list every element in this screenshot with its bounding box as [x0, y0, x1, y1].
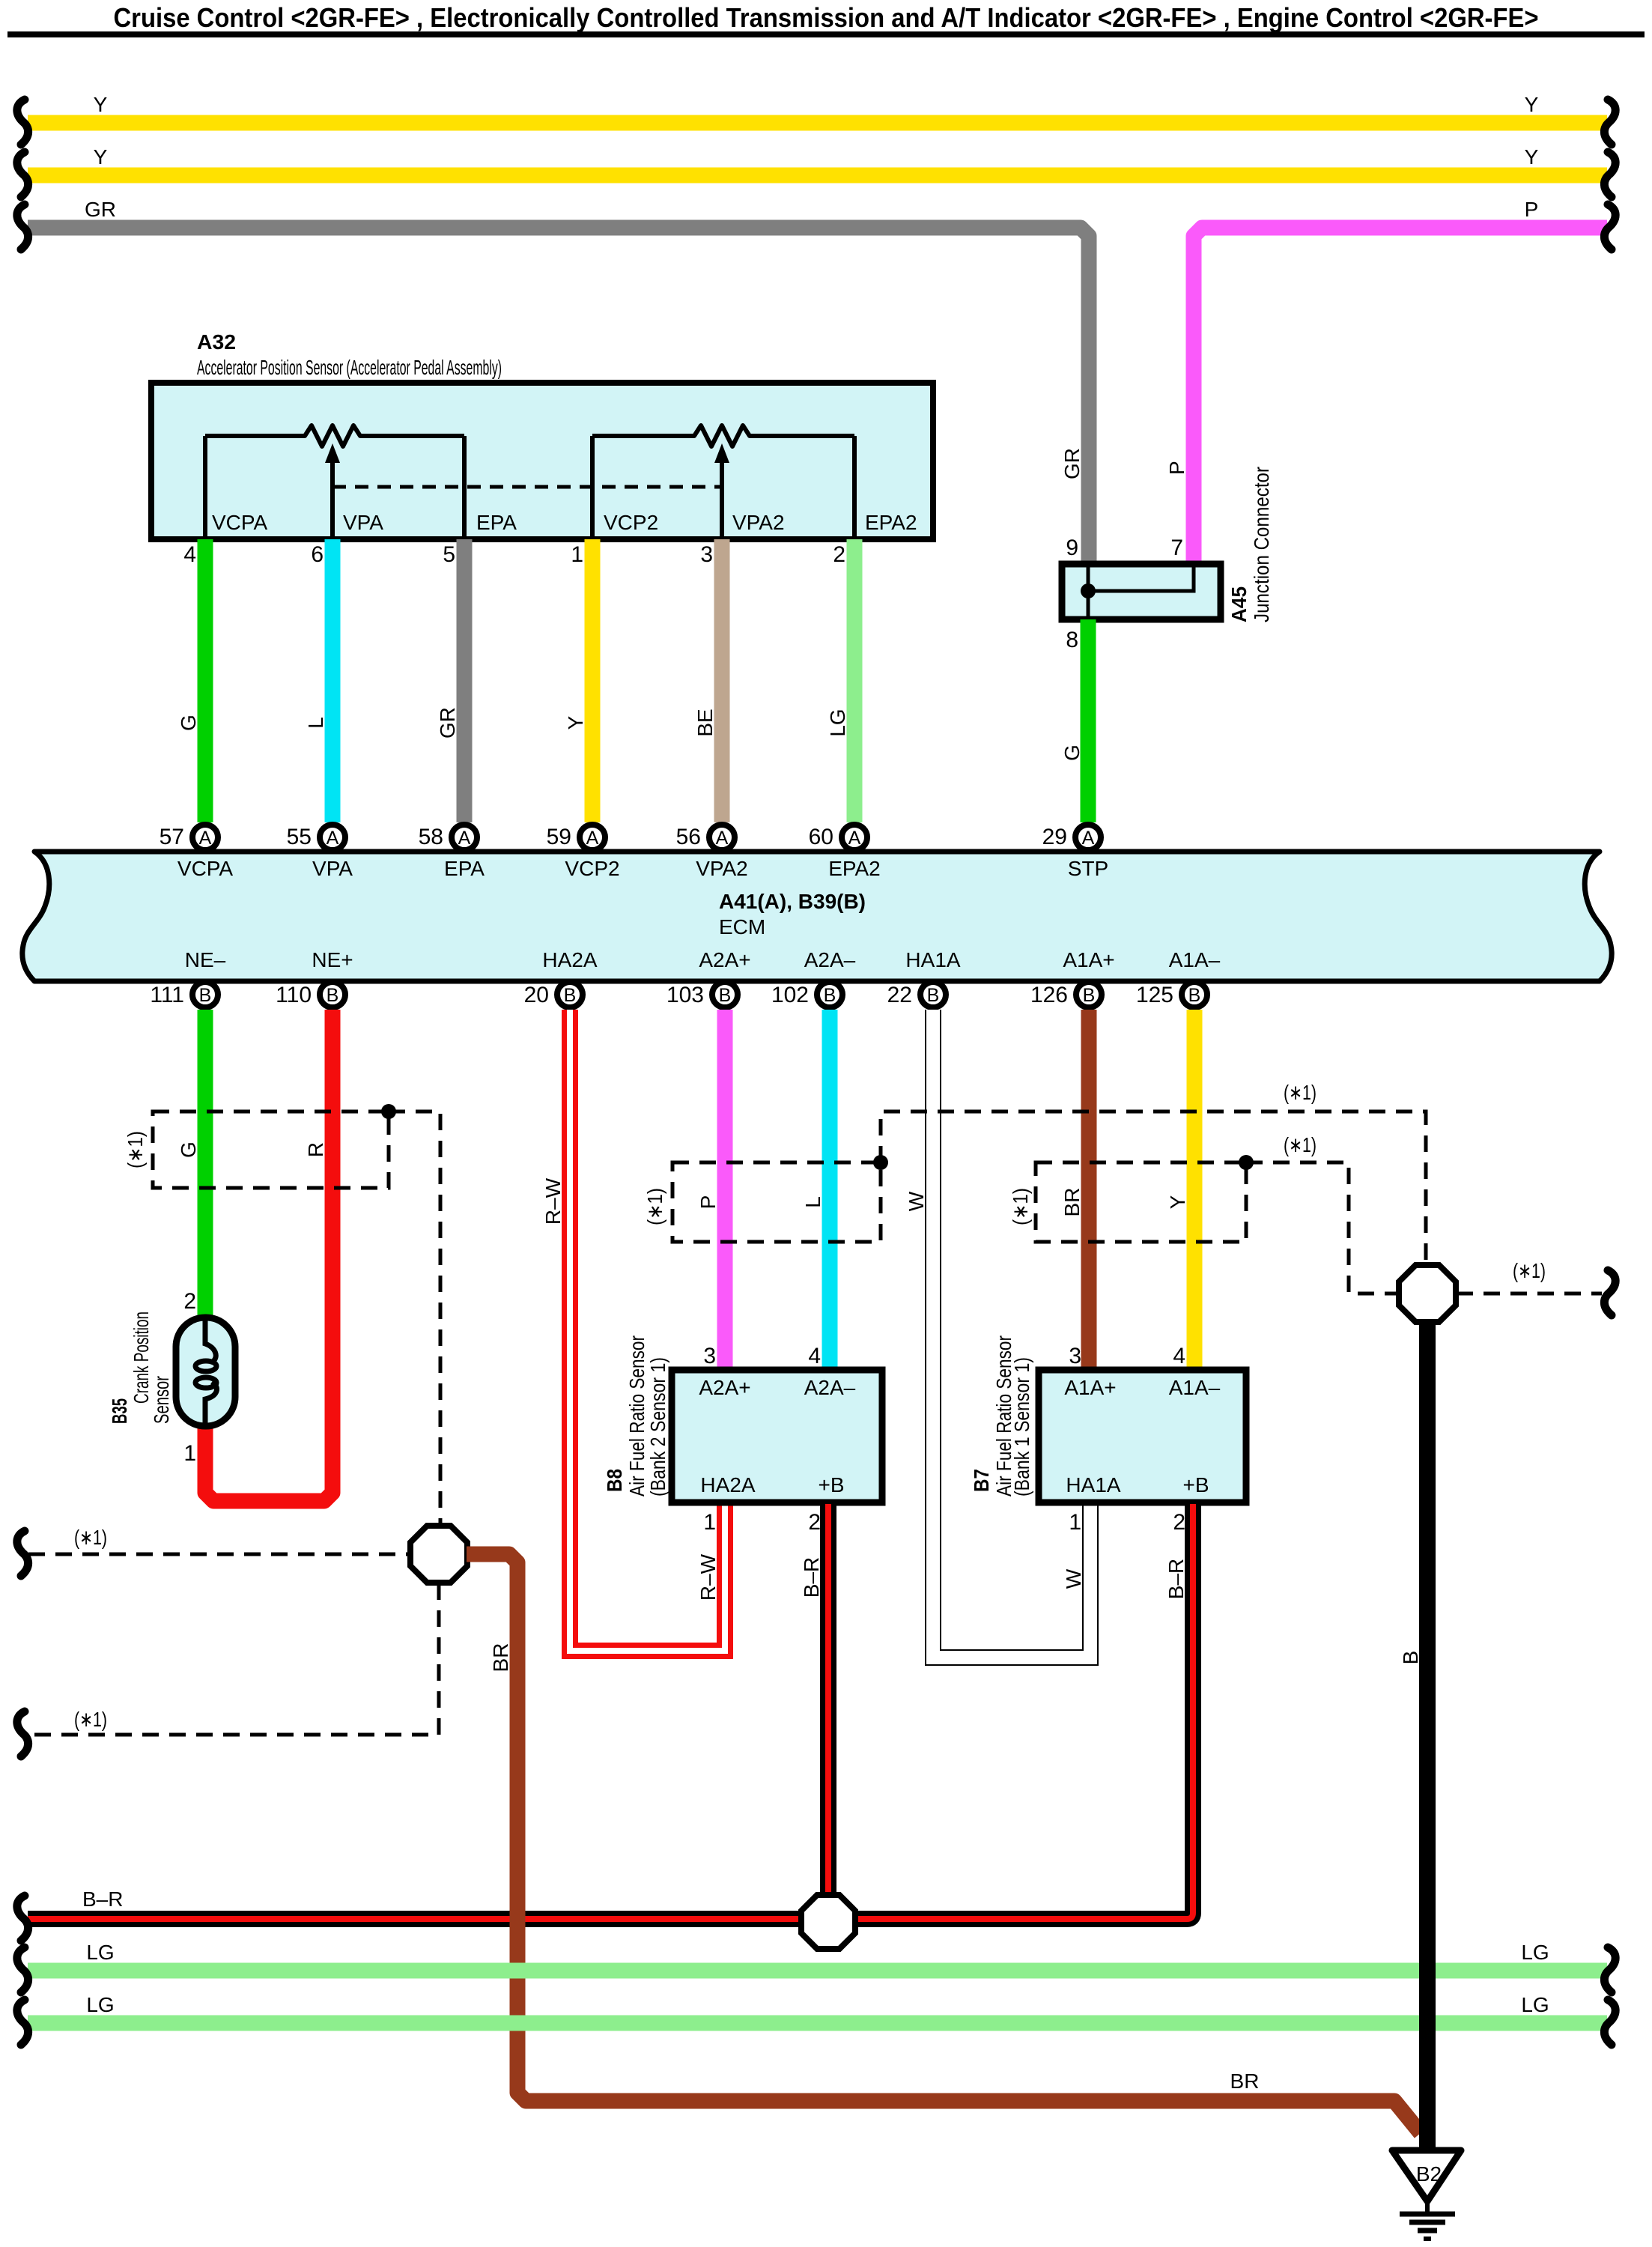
svg-text:NE+: NE+ — [312, 948, 353, 971]
svg-text:A32: A32 — [197, 330, 236, 354]
svg-text:B: B — [927, 985, 940, 1006]
ECM pin 59A (VCP2) — [580, 825, 605, 850]
svg-text:Accelerator Position Sensor (A: Accelerator Position Sensor (Accelerator… — [197, 356, 502, 379]
svg-text:(∗1): (∗1) — [1009, 1188, 1032, 1225]
svg-text:G: G — [1060, 745, 1084, 761]
sensor B8 box — [672, 1370, 882, 1502]
svg-text:4: 4 — [808, 1344, 821, 1368]
svg-text:A2A–: A2A– — [804, 1376, 856, 1399]
svg-text:HA2A: HA2A — [542, 948, 597, 971]
svg-text:B: B — [1188, 985, 1201, 1006]
svg-text:B: B — [824, 985, 836, 1006]
dashed line octagon 2 -> right continuation — [1457, 1292, 1602, 1296]
svg-text:3: 3 — [703, 1344, 716, 1368]
svg-text:4: 4 — [183, 542, 196, 567]
svg-text:B8: B8 — [603, 1469, 626, 1492]
svg-text:NE–: NE– — [185, 948, 226, 971]
ECM pin 55A (VPA) — [320, 825, 345, 850]
svg-text:G: G — [177, 715, 200, 731]
svg-text:29: 29 — [1042, 825, 1067, 849]
svg-text:2: 2 — [1173, 1510, 1185, 1535]
svg-text:111: 111 — [150, 983, 184, 1007]
wire G (ECM 111 -> B35 pin2) — [198, 1010, 213, 1318]
svg-text:Y: Y — [94, 145, 108, 169]
svg-text:A2A–: A2A– — [804, 948, 856, 971]
svg-text:EPA2: EPA2 — [828, 857, 881, 880]
svg-text:BR: BR — [489, 1643, 512, 1673]
wire B (octagon 2 -> ground B2) — [1419, 1320, 1436, 2149]
continuation brace Y1 right — [1604, 100, 1615, 145]
svg-text:G: G — [177, 1141, 200, 1158]
svg-text:Cruise Control <2GR-FE> , Elec: Cruise Control <2GR-FE> , Electronically… — [114, 2, 1539, 33]
wire P (ECM 103 -> B8 pin3) — [717, 1010, 733, 1370]
svg-text:P: P — [1165, 461, 1188, 475]
svg-text:VPA2: VPA2 — [696, 857, 748, 880]
continuation brace LG2 right — [1604, 2000, 1615, 2045]
svg-text:B: B — [1083, 985, 1096, 1006]
wire B-R (B8 +B -> octagon 3) — [820, 1504, 836, 1893]
svg-text:B–R: B–R — [82, 1887, 123, 1911]
dashed shield drain to octagon 1 — [389, 1112, 440, 1525]
continuation brace left (*1) upper — [17, 1531, 28, 1576]
svg-text:A1A+: A1A+ — [1064, 1376, 1116, 1399]
svg-text:EPA2: EPA2 — [865, 511, 917, 534]
svg-text:B7: B7 — [970, 1469, 993, 1492]
svg-text:(∗1): (∗1) — [1513, 1259, 1546, 1282]
svg-text:(Bank 2 Sensor 1): (Bank 2 Sensor 1) — [646, 1357, 669, 1497]
svg-text:110: 110 — [276, 983, 312, 1007]
svg-text:R–W: R–W — [541, 1177, 565, 1225]
svg-text:Air Fuel Ratio Sensor: Air Fuel Ratio Sensor — [625, 1335, 649, 1497]
continuation brace Y2 right — [1604, 152, 1615, 197]
wire LG (lower 2) — [28, 2016, 1607, 2031]
svg-text:A2A+: A2A+ — [699, 948, 750, 971]
svg-text:(∗1): (∗1) — [1284, 1081, 1317, 1104]
svg-text:B: B — [199, 985, 212, 1006]
svg-text:1: 1 — [571, 542, 583, 567]
svg-text:Y: Y — [1166, 1195, 1189, 1209]
svg-text:GR: GR — [436, 707, 459, 739]
svg-text:B: B — [1399, 1651, 1422, 1665]
svg-text:9: 9 — [1066, 536, 1078, 560]
shield octagon junction (left) — [410, 1526, 467, 1583]
svg-text:VPA2: VPA2 — [732, 511, 785, 534]
svg-text:GR: GR — [1060, 448, 1084, 479]
svg-text:7: 7 — [1170, 536, 1183, 560]
wire Y (A32 pin1 -> ECM 59) — [585, 539, 601, 822]
wire BR (ECM 126 -> B7 pin3) — [1081, 1010, 1097, 1371]
wire R-W (ECM 20 -> B8 pin1) — [570, 1010, 725, 1651]
wire GR (A32 pin5 -> ECM 58) — [457, 539, 473, 822]
wire BR (octagon 1 -> ground join) — [467, 1554, 1421, 2133]
wire LG (A32 pin2 -> ECM 60) — [847, 539, 863, 822]
wire L (ECM 102 -> B8 pin4) — [822, 1010, 838, 1370]
sensor B35 body — [176, 1317, 235, 1426]
continuation brace LG1 left — [17, 1947, 28, 1992]
continuation brace GR left — [17, 204, 28, 249]
svg-text:2: 2 — [808, 1510, 821, 1535]
svg-text:+B: +B — [818, 1473, 844, 1497]
svg-text:R: R — [304, 1142, 327, 1157]
potentiometer 1 (VCPA/VPA/EPA) — [205, 425, 464, 446]
svg-text:1: 1 — [1069, 1510, 1081, 1535]
svg-text:60: 60 — [809, 825, 833, 849]
svg-text:LG: LG — [826, 709, 849, 736]
svg-text:B: B — [719, 985, 732, 1006]
junction dot (BR/Y shield) — [1239, 1155, 1254, 1170]
svg-text:A1A+: A1A+ — [1063, 948, 1114, 971]
svg-text:2: 2 — [183, 1289, 196, 1314]
wire BE (A32 pin3 -> ECM 56) — [714, 539, 730, 822]
wire G (A45 pin 8 -> ECM 29) — [1081, 619, 1096, 822]
svg-text:A1A–: A1A– — [1169, 1376, 1221, 1399]
svg-text:BR: BR — [1230, 2069, 1260, 2093]
potentiometer 2 (VCP2/VPA2/EPA2) — [592, 425, 854, 446]
svg-text:B2: B2 — [1416, 2162, 1442, 2186]
svg-text:A: A — [716, 828, 729, 849]
svg-text:(∗1): (∗1) — [1284, 1133, 1317, 1156]
continuation brace LG2 left — [17, 2000, 28, 2045]
svg-text:L: L — [304, 717, 327, 729]
svg-text:A: A — [458, 828, 471, 849]
svg-text:R–W: R–W — [696, 1553, 720, 1601]
shield dashed box (P/L) — [672, 1162, 881, 1242]
svg-text:+B: +B — [1182, 1473, 1209, 1497]
shield dashed box (G/R) — [153, 1112, 389, 1188]
wire Y (ECM 125 -> B7 pin4) — [1187, 1010, 1203, 1371]
junction dot (P/L shield) — [873, 1155, 888, 1170]
ECM pin 57A (VCPA) — [192, 825, 218, 850]
svg-text:(∗1): (∗1) — [124, 1131, 147, 1168]
svg-text:BR: BR — [1060, 1188, 1084, 1217]
svg-text:STP: STP — [1068, 857, 1108, 880]
wire G (A32 pin4 -> ECM 57) — [198, 539, 213, 822]
junction dot (G/R shield) — [381, 1104, 396, 1119]
svg-text:HA2A: HA2A — [700, 1473, 755, 1497]
svg-text:L: L — [801, 1196, 825, 1208]
continuation brace right (*1) — [1604, 1270, 1615, 1315]
svg-text:126: 126 — [1030, 983, 1068, 1007]
shield octagon junction (right) — [1399, 1265, 1456, 1322]
svg-text:Y: Y — [94, 93, 108, 116]
svg-text:57: 57 — [160, 825, 184, 849]
svg-text:A1A–: A1A– — [1169, 948, 1221, 971]
wire Y (top 2) — [28, 168, 1607, 184]
svg-text:(∗1): (∗1) — [74, 1708, 107, 1731]
junction connector A45 box — [1062, 564, 1221, 619]
svg-text:(∗1): (∗1) — [643, 1188, 666, 1225]
svg-text:VCPA: VCPA — [177, 857, 233, 880]
svg-text:55: 55 — [287, 825, 312, 849]
wire R (ECM 110 -> B35 pin1) — [205, 1010, 332, 1501]
wire P (top, to A45 pin 7) — [1194, 228, 1607, 564]
svg-text:HA1A: HA1A — [1066, 1473, 1120, 1497]
svg-text:6: 6 — [311, 542, 324, 567]
svg-text:B: B — [327, 985, 339, 1006]
connector A32 box — [151, 383, 933, 539]
continuation brace left (*1) lower — [17, 1711, 28, 1756]
svg-text:4: 4 — [1173, 1344, 1185, 1368]
svg-text:LG: LG — [86, 1993, 114, 2016]
svg-text:VCP2: VCP2 — [565, 857, 619, 880]
svg-text:B: B — [564, 985, 577, 1006]
svg-text:3: 3 — [700, 542, 713, 567]
svg-text:P: P — [696, 1195, 720, 1210]
svg-text:Sensor: Sensor — [150, 1376, 173, 1424]
svg-text:102: 102 — [771, 983, 809, 1007]
svg-text:ECM: ECM — [719, 915, 765, 938]
svg-text:A: A — [327, 828, 339, 849]
svg-text:LG: LG — [1521, 1941, 1549, 1964]
dashed line BR/Y shield -> octagon 2 — [1246, 1162, 1397, 1294]
svg-text:A41(A), B39(B): A41(A), B39(B) — [719, 890, 866, 913]
svg-text:Junction Connector: Junction Connector — [1250, 467, 1273, 622]
svg-text:A: A — [199, 828, 212, 849]
svg-text:1: 1 — [703, 1510, 716, 1535]
ground B2 — [1392, 2150, 1461, 2201]
svg-text:3: 3 — [1069, 1344, 1081, 1368]
svg-text:A: A — [1082, 828, 1095, 849]
svg-text:VCP2: VCP2 — [604, 511, 658, 534]
svg-text:20: 20 — [524, 983, 549, 1007]
svg-text:W: W — [905, 1191, 928, 1211]
svg-text:(∗1): (∗1) — [74, 1526, 107, 1549]
ECM pin 58A (EPA) — [452, 825, 477, 850]
svg-text:B–R: B–R — [800, 1557, 823, 1598]
B35 coil — [205, 1320, 216, 1362]
continuation brace P right — [1604, 204, 1615, 249]
continuation brace B-R left — [17, 1896, 28, 1941]
svg-text:EPA: EPA — [476, 511, 517, 534]
svg-text:8: 8 — [1066, 628, 1078, 652]
svg-text:Y: Y — [564, 715, 587, 730]
svg-text:A45: A45 — [1227, 586, 1251, 622]
wire L (A32 pin6 -> ECM 55) — [325, 539, 341, 822]
wire LG (lower 1) — [28, 1963, 1607, 1979]
svg-text:56: 56 — [676, 825, 701, 849]
svg-text:B–R: B–R — [1164, 1559, 1188, 1599]
continuation brace Y1 left — [17, 100, 28, 145]
svg-text:58: 58 — [419, 825, 443, 849]
svg-text:103: 103 — [666, 983, 704, 1007]
svg-text:5: 5 — [443, 542, 455, 567]
title rule — [7, 31, 1645, 37]
wire W (ECM 22 -> B7 pin1) — [933, 1010, 1090, 1658]
svg-text:Y: Y — [1525, 93, 1539, 116]
svg-text:22: 22 — [887, 983, 912, 1007]
wire GR (top, to A45 pin 9) — [28, 228, 1089, 564]
ECM A41(A),B39(B) band — [22, 852, 1612, 981]
ECM pin 60A (EPA2) — [842, 825, 867, 850]
svg-text:VPA: VPA — [343, 511, 383, 534]
continuation brace LG1 right — [1604, 1947, 1615, 1992]
A45 internal bus — [1087, 567, 1090, 616]
wire B-R (B7 +B -> horizontal run) — [855, 1504, 1193, 1919]
dashed wiper link — [332, 485, 722, 489]
svg-text:A: A — [586, 828, 599, 849]
dashed line P/L shield -> octagon 2 — [881, 1112, 1426, 1264]
dashed line left continuation -> octagon 1 — [28, 1553, 410, 1556]
svg-text:1: 1 — [183, 1441, 196, 1466]
svg-text:125: 125 — [1136, 983, 1173, 1007]
dashed line octagon 1 -> lower continuation — [28, 1583, 439, 1735]
svg-text:A: A — [848, 828, 861, 849]
ECM pin 56A (VPA2) — [709, 825, 735, 850]
svg-text:EPA: EPA — [444, 857, 485, 880]
shield octagon junction (B-R) — [801, 1895, 855, 1949]
svg-text:59: 59 — [547, 825, 571, 849]
svg-text:GR: GR — [85, 198, 116, 221]
wire B-R (horizontal run) — [28, 1911, 824, 1927]
shield dashed box (BR/Y) — [1036, 1162, 1246, 1242]
svg-text:Y: Y — [1525, 145, 1539, 169]
svg-text:LG: LG — [1521, 1993, 1549, 2016]
svg-text:LG: LG — [86, 1941, 114, 1964]
svg-text:VCPA: VCPA — [212, 511, 267, 534]
continuation brace Y2 left — [17, 152, 28, 197]
wire Y (top 1) — [28, 115, 1607, 131]
svg-text:VPA: VPA — [312, 857, 353, 880]
svg-text:W: W — [1062, 1568, 1085, 1589]
svg-text:P: P — [1525, 198, 1539, 221]
svg-text:(Bank 1 Sensor 1): (Bank 1 Sensor 1) — [1010, 1357, 1033, 1497]
svg-text:A2A+: A2A+ — [699, 1376, 750, 1399]
sensor B7 box — [1039, 1370, 1246, 1502]
ECM pin 29A (STP) — [1075, 825, 1101, 850]
svg-text:HA1A: HA1A — [905, 948, 960, 971]
svg-text:2: 2 — [833, 542, 845, 567]
svg-text:BE: BE — [693, 709, 717, 736]
svg-text:B35: B35 — [108, 1398, 131, 1424]
